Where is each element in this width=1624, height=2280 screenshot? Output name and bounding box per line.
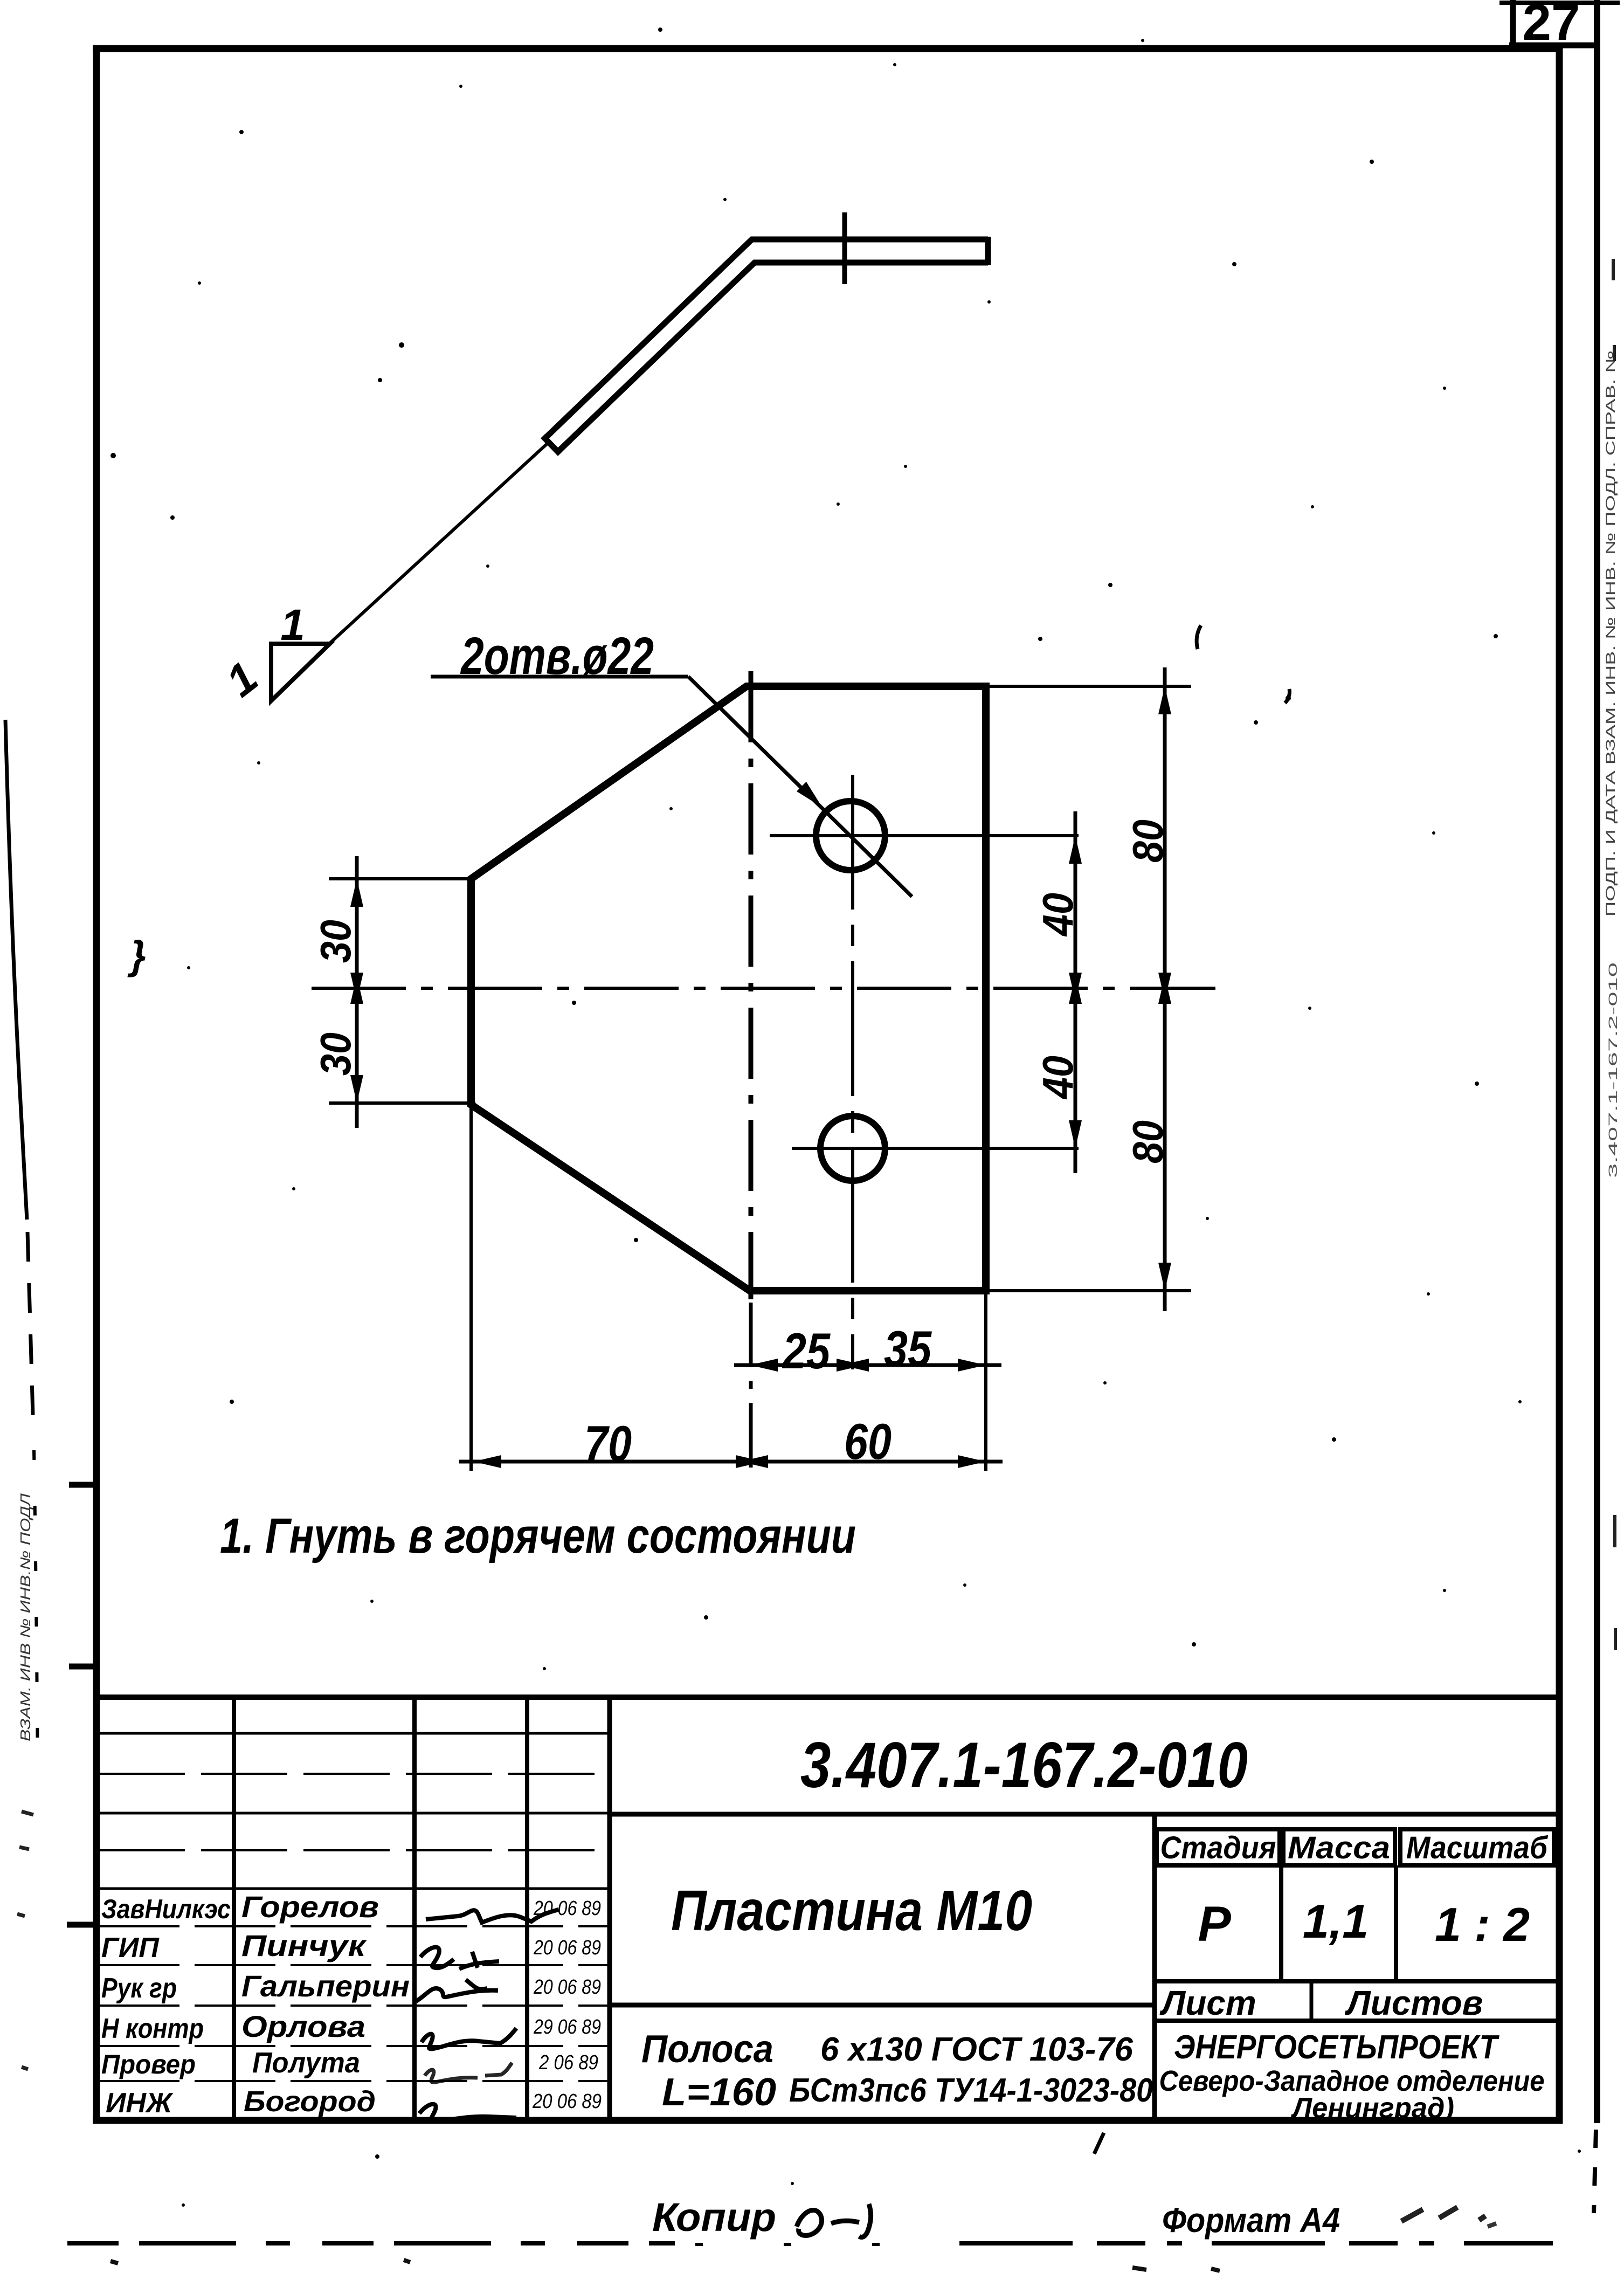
- bottom dashed line right part: [959, 2241, 1553, 2245]
- svg-text:6 х130 ГОСТ 103-76: 6 х130 ГОСТ 103-76: [820, 2031, 1134, 2068]
- list row bottom line: [1155, 2019, 1559, 2023]
- leader line to top hole: [688, 677, 912, 897]
- svg-text:60: 60: [844, 1413, 892, 1470]
- svg-text:29 06 89: 29 06 89: [533, 2016, 601, 2038]
- svg-text:Н контр: Н контр: [101, 2013, 204, 2044]
- right edge extension line down: [984, 1294, 987, 1471]
- signature row line 1: [99, 1925, 610, 1927]
- svg-text:ВЗАМ. ИНВ № ИНВ.№ ПОДЛ: ВЗАМ. ИНВ № ИНВ.№ ПОДЛ: [17, 1493, 33, 1741]
- bend axis tick mark: [842, 212, 847, 284]
- bottom dashed line left part: [67, 2241, 675, 2245]
- svg-text:70: 70: [584, 1415, 632, 1472]
- fold mark tick 1: [69, 1482, 98, 1488]
- svg-text:Пластина М10: Пластина М10: [671, 1879, 1032, 1943]
- stray tick below tu cell: [1094, 2133, 1104, 2154]
- bent plate side view upper outline: [545, 239, 988, 438]
- right margin stamp text column 2: [1606, 962, 1620, 1178]
- svg-text:Полута: Полута: [252, 2047, 360, 2079]
- svg-text:Гальперин: Гальперин: [241, 1969, 410, 2003]
- fold mark tick 2: [69, 1664, 98, 1670]
- svg-text:40: 40: [1034, 893, 1082, 937]
- svg-text:Лист: Лист: [1159, 1983, 1256, 2022]
- right margin stamp text column 1: [1604, 350, 1618, 917]
- 80 dim extension bottom: [990, 1289, 1191, 1292]
- svg-text:35: 35: [884, 1320, 932, 1377]
- svg-text:1 : 2: 1 : 2: [1435, 1898, 1530, 1951]
- kopir signature squiggle: [797, 2204, 871, 2237]
- right 80 dim arrows: [1158, 686, 1171, 1291]
- svg-text:25: 25: [782, 1322, 831, 1379]
- signature squiggle 5: [425, 2063, 512, 2082]
- left dim arrows: [350, 879, 363, 1103]
- signature squiggle 3: [416, 1980, 498, 2001]
- svg-text:Стадия: Стадия: [1160, 1830, 1276, 1865]
- stray pen mark 2: [1285, 689, 1290, 703]
- svg-text:20 06 89: 20 06 89: [533, 1897, 601, 1920]
- dim line 25-35: [734, 1363, 1001, 1367]
- svg-text:80: 80: [1124, 819, 1172, 863]
- stadia header box: [1157, 1829, 1280, 1865]
- 80 dim extension top: [990, 685, 1191, 688]
- frame left border: [93, 45, 100, 2124]
- svg-text:ЗавНилкэс: ЗавНилкэс: [101, 1894, 231, 1924]
- page number box bottom line: [1509, 43, 1600, 49]
- faint dot cluster: [1488, 2223, 1496, 2227]
- frame bottom border: [93, 2117, 1563, 2124]
- svg-text:80: 80: [1124, 1120, 1172, 1163]
- signature row line 3: [99, 2005, 610, 2007]
- horizontal centerline: [312, 987, 1215, 990]
- crease line dashed continuation: [27, 1232, 33, 1434]
- svg-text:1: 1: [280, 601, 305, 650]
- dim line 70-60: [459, 1460, 1003, 1464]
- svg-text:Рук гр: Рук гр: [101, 1973, 177, 2004]
- left table row line 3: [99, 1812, 610, 1815]
- right dim line 40-40: [1074, 811, 1077, 1173]
- signature row line 2: [99, 1964, 610, 1966]
- left dim extension line bottom: [329, 1101, 475, 1105]
- leader arrowhead: [797, 782, 826, 811]
- left table row line 1: [99, 1732, 610, 1735]
- fold mark tick 3: [67, 1922, 98, 1928]
- svg-text:ЭНЕРГОСЕТЬПРОЕКТ: ЭНЕРГОСЕТЬПРОЕКТ: [1174, 2029, 1500, 2066]
- sheet outer right line dashed tail: [1594, 2130, 1596, 2213]
- bend chain line: [749, 671, 754, 1299]
- signature row line 4: [99, 2045, 610, 2047]
- faint marks right of format: [1401, 2207, 1485, 2221]
- dim text 40 upper: [1034, 893, 1082, 937]
- dim text 80 lower: [1124, 1120, 1172, 1163]
- bent plate right end cap: [985, 237, 991, 265]
- left dim line 30-30: [355, 856, 359, 1128]
- list row divider: [1310, 1981, 1314, 2021]
- svg-text:20 06 89: 20 06 89: [533, 1976, 601, 1999]
- left margin stray dashes: [17, 1811, 33, 2069]
- left dim extension line top: [329, 877, 475, 880]
- 25-35 arrows: [750, 1359, 986, 1372]
- left margin stamp text: [17, 1493, 33, 1741]
- svg-text:3.407.1-167.2-010: 3.407.1-167.2-010: [800, 1729, 1248, 1801]
- page number box left line: [1510, 0, 1516, 45]
- signature squiggle 6: [419, 2104, 516, 2121]
- left table row line 4: [99, 1849, 610, 1851]
- bent plate lower end cap: [543, 436, 560, 454]
- svg-text:2 06 89: 2 06 89: [538, 2051, 598, 2074]
- plate outline front view: [471, 686, 986, 1291]
- bottom dashed line sparse middle: [695, 2243, 927, 2246]
- masshtab header box: [1400, 1829, 1554, 1865]
- svg-text:ПОДП. И ДАТА ВЗАМ. ИНВ. №: ПОДП. И ДАТА ВЗАМ. ИНВ. № ИНВ. № ПОДЛ. С…: [1604, 350, 1618, 917]
- sheet outer right line: [1594, 0, 1600, 2123]
- svg-text:Ленинград): Ленинград): [1290, 2092, 1454, 2124]
- list row top line: [1155, 1979, 1559, 1983]
- svg-text:Пинчук: Пинчук: [241, 1928, 367, 1962]
- right subtable vertical: [1152, 1814, 1157, 2120]
- signature squiggle 2: [420, 1947, 499, 1969]
- svg-text:Листов: Листов: [1345, 1983, 1483, 2022]
- dim text 30 lower: [312, 1032, 360, 1076]
- svg-text:Орлова: Орлова: [241, 2009, 365, 2043]
- stray dots under dashed line: [110, 2260, 1220, 2271]
- title block vertical col1: [232, 1697, 236, 2120]
- dim text 40 lower: [1034, 1056, 1082, 1100]
- crease line upper solid part: [5, 720, 27, 1220]
- title block vertical col3: [525, 1697, 529, 2120]
- frame top border: [93, 45, 1561, 52]
- section view direction triangle flag: [271, 644, 330, 701]
- bend line extension below: [749, 1303, 753, 1471]
- bottom hole horizontal centerline: [792, 1147, 1079, 1150]
- leader underline: [431, 675, 688, 679]
- svg-text:Горелов: Горелов: [241, 1890, 379, 1924]
- right dim line 80-80: [1163, 667, 1167, 1311]
- svg-text:20 06 89: 20 06 89: [532, 2090, 602, 2113]
- svg-text:L=160: L=160: [662, 2071, 776, 2114]
- svg-text:3.407.1-167.2-010: 3.407.1-167.2-010: [1606, 962, 1620, 1178]
- doc number row bottom line: [610, 1812, 1559, 1817]
- svg-text:Копир: Копир: [652, 2195, 776, 2240]
- title block top line: [96, 1694, 1559, 1700]
- svg-text:}: }: [127, 933, 146, 977]
- right margin dashes: [1613, 259, 1615, 1650]
- svg-text:Богород: Богород: [244, 2085, 376, 2118]
- left edge extension line down: [469, 1108, 473, 1471]
- page number box top line: [1499, 1, 1620, 5]
- svg-text:Провер: Провер: [101, 2049, 196, 2079]
- bottom hole: [820, 1116, 885, 1181]
- signature squiggle 1: [426, 1910, 558, 1923]
- svg-text:ГИП: ГИП: [101, 1932, 160, 1964]
- left table row line 5: [99, 1888, 610, 1890]
- section label 1 left of flag: [217, 652, 267, 706]
- svg-text:ИНЖ: ИНЖ: [106, 2088, 174, 2119]
- title block vertical col4: [607, 1697, 612, 2120]
- frame right inner border: [1556, 45, 1563, 2124]
- part name cell bottom line: [610, 2003, 1155, 2008]
- top hole horizontal centerline: [770, 834, 1079, 837]
- svg-text:Масштаб: Масштаб: [1406, 1830, 1549, 1865]
- values row divider 1: [1279, 1865, 1283, 1981]
- svg-text:Формат А4: Формат А4: [1162, 2201, 1340, 2240]
- title block vertical col2: [412, 1697, 417, 2120]
- bent plate side view lower outline: [558, 263, 988, 452]
- svg-text:30: 30: [312, 920, 360, 963]
- left table row line 2: [99, 1773, 610, 1775]
- svg-text:Полоса: Полоса: [641, 2028, 773, 2071]
- svg-text:1,1: 1,1: [1303, 1895, 1369, 1948]
- massa header box: [1283, 1829, 1395, 1865]
- top hole: [816, 801, 885, 870]
- hole vertical centerline: [851, 775, 854, 1369]
- dim text 80 upper: [1124, 819, 1172, 863]
- section trace thin line: [330, 444, 547, 643]
- svg-text:Масса: Масса: [1288, 1830, 1390, 1865]
- scan noise speckles: [239, 130, 244, 134]
- 70-60 arrows: [473, 1455, 986, 1468]
- signature row line 5: [99, 2080, 610, 2082]
- svg-text:40: 40: [1034, 1056, 1082, 1100]
- signature squiggle 4: [421, 2028, 516, 2049]
- svg-text:27: 27: [1523, 0, 1580, 51]
- svg-text:30: 30: [312, 1032, 360, 1076]
- dim text 30 upper: [312, 920, 360, 963]
- stray pen mark 1: [1197, 625, 1201, 649]
- crease line sparse tail: [34, 1450, 38, 1768]
- svg-text:БСт3пс6 ТУ14-1-3023-80: БСт3пс6 ТУ14-1-3023-80: [789, 2072, 1153, 2109]
- svg-text:Р: Р: [1198, 1897, 1231, 1952]
- values row divider 2: [1394, 1865, 1398, 1981]
- svg-text:1. Гнуть в горячем состоянии: 1. Гнуть в горячем состоянии: [220, 1508, 856, 1563]
- right 40 dim arrows: [1069, 836, 1082, 1148]
- svg-text:20 06 89: 20 06 89: [533, 1937, 601, 1959]
